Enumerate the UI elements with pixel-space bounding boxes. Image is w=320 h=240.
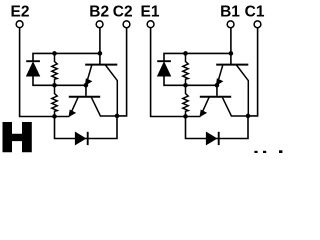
node B1 junction xyxy=(229,51,234,56)
cropped text remnant 1 xyxy=(254,151,257,153)
transistor Q2b emitter with arrow xyxy=(70,97,79,116)
terminal B1 xyxy=(227,21,234,28)
freewheel diode D2b cathode bar xyxy=(87,132,89,145)
wire E1 drop and emitter rail xyxy=(151,28,201,117)
diode D1a cathode bar xyxy=(157,60,171,62)
cropped text remnant 3 xyxy=(279,150,282,153)
transistor Q1b base bar xyxy=(200,96,231,98)
cropped text remnant 2 xyxy=(263,151,266,153)
node emitter rail junction xyxy=(183,114,188,119)
resistor R2a xyxy=(52,53,57,85)
transistor Q1b emitter with arrow xyxy=(201,97,210,116)
transistor Q2a base bar xyxy=(85,64,117,66)
logo H xyxy=(3,122,32,152)
wire base rail xyxy=(164,53,231,61)
diode D1a triangle xyxy=(157,62,171,76)
transistor Q2a collector xyxy=(105,65,117,116)
diode D2a triangle xyxy=(26,62,40,76)
terminal C1 xyxy=(254,21,261,28)
wire C2 drop to collector node xyxy=(117,28,127,116)
terminal C2 xyxy=(123,21,130,28)
node mid rail / R junction xyxy=(52,83,57,88)
freewheel diode D1b cathode bar xyxy=(218,132,220,145)
wire Q2b base stub xyxy=(85,85,87,96)
wire base rail xyxy=(33,53,100,61)
svg-text:C1: C1 xyxy=(245,3,265,20)
freewheel diode D2b triangle xyxy=(75,132,86,145)
wire E2 drop and emitter rail xyxy=(20,28,70,117)
wire B2 drop to Q2a base xyxy=(99,28,101,65)
transistor Q1b collector xyxy=(222,97,248,116)
node Q1b base xyxy=(215,83,220,88)
wire Q1b base stub xyxy=(216,85,218,96)
svg-text:E1: E1 xyxy=(141,3,160,20)
node base rail / R top xyxy=(183,51,188,56)
wire B1 drop to Q1a base xyxy=(230,28,232,65)
transistor Q1a collector xyxy=(236,65,248,116)
svg-text:B1: B1 xyxy=(220,3,240,20)
node mid rail / R junction xyxy=(183,83,188,88)
node Q2b base xyxy=(84,83,89,88)
freewheel diode D1b triangle xyxy=(206,132,217,145)
terminal E1 xyxy=(147,21,154,28)
svg-text:C2: C2 xyxy=(113,3,133,20)
node B2 junction xyxy=(98,51,103,56)
diode D2a cathode bar xyxy=(26,60,40,62)
node emitter rail junction xyxy=(52,114,57,119)
svg-text:E2: E2 xyxy=(11,3,30,20)
wire anode rail (mid rail) xyxy=(33,76,86,86)
node base rail / R top xyxy=(52,51,57,56)
resistor R1b xyxy=(183,85,188,116)
node collector junction xyxy=(246,114,251,119)
node collector junction xyxy=(115,114,120,119)
terminal B2 xyxy=(96,21,103,28)
wire anode rail (mid rail) xyxy=(164,76,217,86)
transistor Q2b base bar xyxy=(69,96,100,98)
transistor Q2b collector xyxy=(91,97,117,116)
resistor R1a xyxy=(183,53,188,85)
transistor Q1a base bar xyxy=(216,64,248,66)
resistor R2b xyxy=(52,85,57,116)
wire bottom rail with freewheel diode xyxy=(55,116,118,139)
transistor Q1a emitter with arrow xyxy=(217,65,223,85)
svg-text:B2: B2 xyxy=(89,3,109,20)
wire C1 drop to collector node xyxy=(248,28,258,116)
wire bottom rail with freewheel diode xyxy=(186,116,249,139)
transistor Q2a emitter with arrow xyxy=(86,65,92,85)
terminal E2 xyxy=(16,21,23,28)
